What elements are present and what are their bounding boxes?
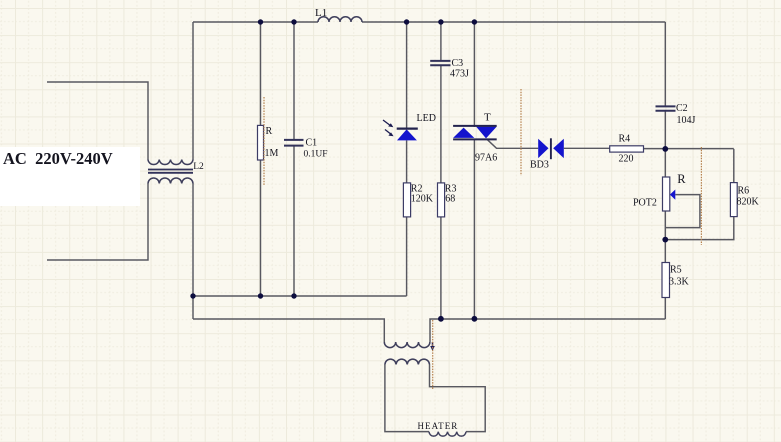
svg-text:R5: R5 bbox=[670, 265, 682, 276]
svg-text:C3: C3 bbox=[452, 58, 464, 69]
svg-text:L2: L2 bbox=[193, 162, 204, 172]
svg-text:473J: 473J bbox=[450, 69, 469, 80]
svg-text:BD3: BD3 bbox=[530, 160, 549, 171]
svg-text:POT2: POT2 bbox=[633, 198, 657, 209]
svg-text:0.1UF: 0.1UF bbox=[304, 150, 328, 160]
svg-text:220: 220 bbox=[619, 154, 634, 165]
svg-text:C2: C2 bbox=[676, 103, 688, 114]
svg-text:120K: 120K bbox=[411, 194, 434, 205]
svg-text:68: 68 bbox=[445, 194, 455, 205]
svg-text:R: R bbox=[677, 172, 686, 186]
svg-text:R4: R4 bbox=[619, 134, 631, 145]
svg-text:HEATER: HEATER bbox=[418, 421, 459, 431]
svg-text:R: R bbox=[266, 126, 273, 137]
svg-text:820K: 820K bbox=[737, 197, 760, 208]
svg-text:1M: 1M bbox=[265, 148, 279, 159]
svg-text:C1: C1 bbox=[306, 138, 318, 149]
svg-text:R6: R6 bbox=[738, 186, 750, 197]
svg-text:97A6: 97A6 bbox=[475, 153, 497, 164]
svg-text:L1: L1 bbox=[315, 7, 327, 19]
svg-text:AC 220V-240V: AC 220V-240V bbox=[3, 149, 113, 168]
svg-text:LED: LED bbox=[417, 113, 436, 124]
svg-text:T: T bbox=[484, 112, 491, 124]
svg-text:104J: 104J bbox=[677, 115, 696, 126]
svg-text:3.3K: 3.3K bbox=[669, 277, 690, 288]
